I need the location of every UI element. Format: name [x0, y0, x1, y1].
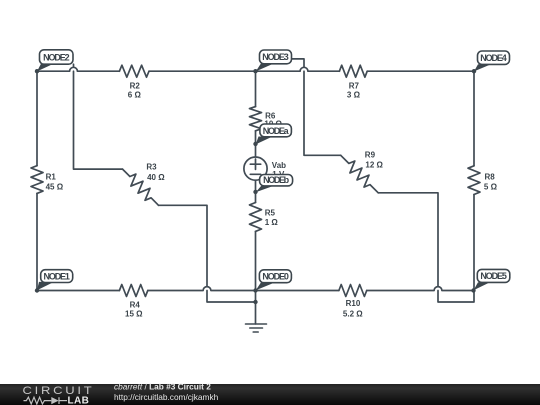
svg-text:NODE4: NODE4	[480, 53, 507, 63]
svg-text:R9: R9	[365, 151, 376, 160]
svg-text:40 Ω: 40 Ω	[147, 173, 165, 182]
svg-text:NODEa: NODEa	[263, 126, 290, 136]
svg-text:5.2 Ω: 5.2 Ω	[343, 309, 363, 318]
svg-text:Vab: Vab	[272, 161, 286, 170]
svg-text:NODE3: NODE3	[262, 52, 289, 62]
svg-text:6 Ω: 6 Ω	[128, 91, 142, 100]
svg-text:3 Ω: 3 Ω	[347, 91, 361, 100]
svg-text:NODEb: NODEb	[263, 175, 290, 185]
svg-text:5 Ω: 5 Ω	[484, 183, 498, 192]
svg-text:R4: R4	[130, 300, 141, 309]
svg-text:R3: R3	[146, 163, 157, 172]
svg-text:15 Ω: 15 Ω	[125, 310, 143, 319]
svg-text:1 Ω: 1 Ω	[265, 218, 279, 227]
svg-text:R7: R7	[349, 81, 360, 90]
svg-text:45 Ω: 45 Ω	[46, 182, 64, 191]
svg-text:NODE5: NODE5	[480, 271, 506, 281]
svg-text:NODE1: NODE1	[43, 271, 69, 281]
svg-text:R5: R5	[265, 208, 276, 217]
svg-text:NODE2: NODE2	[43, 52, 70, 62]
svg-text:R1: R1	[46, 173, 57, 182]
svg-text:R2: R2	[130, 81, 141, 90]
svg-text:NODE0: NODE0	[262, 272, 289, 282]
svg-text:R8: R8	[485, 173, 496, 182]
svg-text:12 Ω: 12 Ω	[365, 160, 383, 169]
svg-text:R10: R10	[346, 299, 361, 308]
